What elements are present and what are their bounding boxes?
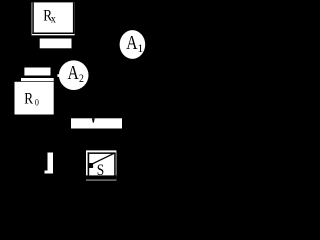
svg-text:1: 1 <box>137 41 143 55</box>
svg-text:A: A <box>126 31 137 53</box>
ammeter A2 <box>57 60 88 90</box>
resistor Rx box <box>32 2 75 35</box>
wire stub below Rx <box>40 39 72 49</box>
rheostat bar <box>71 118 122 128</box>
wire stub above R0 <box>24 68 50 76</box>
svg-text:S: S <box>97 162 104 179</box>
svg-text:R: R <box>24 91 33 108</box>
battery plate <box>45 153 54 174</box>
ammeter A1 <box>120 30 146 59</box>
svg-text:2: 2 <box>79 72 84 85</box>
svg-text:0: 0 <box>35 97 40 108</box>
resistor R0 box <box>15 78 54 115</box>
svg-text:x: x <box>51 13 56 26</box>
switch S box <box>86 150 116 180</box>
svg-text:A: A <box>68 61 79 83</box>
